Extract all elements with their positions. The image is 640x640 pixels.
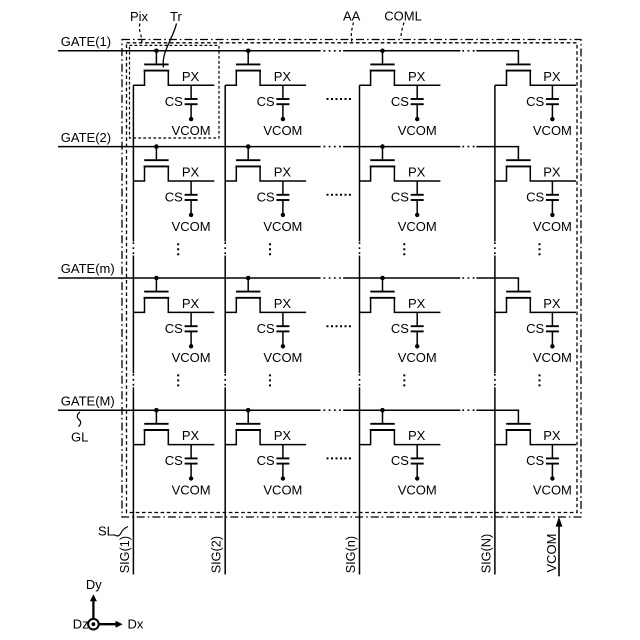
wire drain / PX node r2c2	[260, 166, 306, 181]
capacitor CS r1c4	[546, 85, 559, 119]
capacitor CS r2c3	[411, 181, 424, 215]
transistor Tr r2c3	[370, 147, 396, 167]
wire drain / PX node r4c3	[394, 430, 440, 445]
node VCOM terminal dot r1c3	[415, 117, 419, 121]
svg-text:VCOM: VCOM	[263, 482, 302, 497]
wire source: channel to signal line r1c1	[133, 71, 144, 86]
svg-text:VCOM: VCOM	[533, 350, 572, 365]
svg-text:VCOM: VCOM	[172, 482, 211, 497]
node junction dot on gate line r1c1	[154, 49, 159, 54]
leader from Tr to transistor (solid curve)	[163, 24, 176, 68]
node junction dot on gate line r3c3	[380, 276, 385, 281]
Pix pixel-cell dashed box	[130, 45, 220, 138]
svg-text:VCOM: VCOM	[263, 123, 302, 138]
wire source: channel to signal line r4c4	[495, 430, 507, 445]
svg-text:Pix: Pix	[130, 9, 149, 24]
node junction dot on gate line r4c2	[246, 408, 251, 413]
wire source: channel to signal line r2c1	[133, 166, 144, 181]
dots (omitted columns) row3	[327, 325, 352, 327]
svg-text:CS: CS	[391, 453, 409, 468]
node VCOM terminal dot r4c2	[281, 476, 285, 480]
wire drain / PX node r3c2	[260, 298, 306, 313]
wire drain / PX node r1c1	[168, 71, 214, 86]
node junction dot on gate line r2c2	[246, 144, 251, 149]
transistor Tr r2c4	[506, 147, 532, 167]
svg-text:CS: CS	[526, 321, 544, 336]
svg-text:CS: CS	[257, 94, 275, 109]
node VCOM terminal dot r3c4	[550, 344, 554, 348]
node VCOM terminal dot r4c4	[550, 476, 554, 480]
svg-text:VCOM: VCOM	[263, 219, 302, 234]
squiggle leader GATE(M) to GL	[77, 412, 80, 427]
node junction dot on gate line r2c1	[154, 144, 159, 149]
capacitor CS r1c2	[276, 85, 289, 119]
wire source: channel to signal line r4c3	[360, 430, 371, 445]
node VCOM terminal dot r2c1	[189, 213, 193, 217]
axis symbol Dz (circle with dot, out of page)	[88, 619, 99, 630]
wire drain / PX node r3c1	[168, 298, 214, 313]
transistor Tr r3c4	[506, 278, 532, 298]
AA active-area boundary (dashed rectangle)	[127, 43, 578, 513]
dots (omitted rows) below VCOM col3 gap2	[403, 374, 405, 388]
svg-text:SL: SL	[98, 524, 114, 539]
axis arrow Dx (right)	[93, 621, 122, 628]
node junction dot on gate line r1c2	[246, 49, 251, 54]
svg-text:PX: PX	[543, 296, 561, 311]
svg-text:PX: PX	[182, 428, 200, 443]
wire gate line GATE(m) (with dotted breaks for omitted columns)	[58, 277, 519, 279]
svg-text:COML: COML	[384, 9, 422, 24]
transistor Tr r2c1	[144, 147, 170, 167]
wire drain / PX node r3c3	[394, 298, 440, 313]
wire source: channel to signal line r2c2	[225, 166, 236, 181]
dots (omitted rows) below VCOM col1 gap1	[177, 243, 179, 257]
svg-text:CS: CS	[391, 190, 409, 205]
wire drain / PX node r3c4	[530, 298, 576, 313]
wire gate line GATE(2) (with dotted breaks for omitted columns)	[58, 146, 519, 148]
svg-text:CS: CS	[391, 94, 409, 109]
wire drain / PX node r4c2	[260, 430, 306, 445]
leader from AA to AA boundary (dashed curve)	[351, 23, 353, 42]
wire source: channel to signal line r4c2	[225, 430, 236, 445]
node VCOM terminal dot r4c3	[415, 476, 419, 480]
svg-text:PX: PX	[543, 69, 561, 84]
svg-text:Dy: Dy	[86, 577, 102, 592]
svg-text:CS: CS	[165, 94, 183, 109]
wire source: channel to signal line r1c3	[360, 71, 371, 86]
wire gate line GATE(1) (with dotted breaks for omitted columns)	[58, 50, 519, 52]
arrow VCOM to COML boundary	[556, 517, 563, 577]
node VCOM terminal dot r3c2	[281, 344, 285, 348]
transistor Tr r3c3	[370, 278, 396, 298]
svg-text:VCOM: VCOM	[544, 534, 559, 573]
wire source: channel to signal line r3c2	[225, 298, 236, 313]
svg-text:CS: CS	[257, 321, 275, 336]
transistor Tr r4c4	[506, 410, 532, 430]
COML boundary (dash-dot rectangle)	[122, 40, 581, 518]
svg-text:CS: CS	[165, 190, 183, 205]
wire drain / PX node r4c4	[530, 430, 576, 445]
svg-text:PX: PX	[543, 428, 561, 443]
svg-text:CS: CS	[257, 453, 275, 468]
wire signal line SIG(2) (vertical, with dotted breaks for omitted rows)	[224, 85, 226, 574]
dots (omitted columns) row4	[327, 457, 352, 459]
squiggle leader SL to boundary	[114, 527, 129, 536]
node junction dot on gate line r1c3	[380, 49, 385, 54]
leader from Pix to pixel box (dashed curve)	[139, 24, 141, 46]
svg-text:PX: PX	[274, 69, 292, 84]
svg-text:VCOM: VCOM	[533, 482, 572, 497]
wire signal line SIG(1) (vertical, with dotted breaks for omitted rows)	[132, 85, 134, 574]
wire source: channel to signal line r4c1	[133, 430, 144, 445]
dots (omitted rows) below VCOM col2 gap2	[269, 374, 271, 388]
svg-text:VCOM: VCOM	[172, 123, 211, 138]
transistor Tr r1c1	[144, 51, 170, 71]
transistor Tr r2c2	[235, 147, 261, 167]
dots (omitted rows) below VCOM col1 gap2	[177, 374, 179, 388]
dots (omitted rows) below VCOM col2 gap1	[269, 243, 271, 257]
svg-text:PX: PX	[408, 165, 426, 180]
svg-text:CS: CS	[526, 453, 544, 468]
svg-text:GATE(2): GATE(2)	[61, 130, 111, 145]
capacitor CS r2c2	[276, 181, 289, 215]
transistor Tr r1c2	[235, 51, 261, 71]
svg-text:PX: PX	[182, 165, 200, 180]
capacitor CS r4c2	[276, 445, 289, 479]
wire drain / PX node r2c4	[530, 166, 576, 181]
wire drain / PX node r1c4	[530, 71, 576, 86]
wire signal line SIG(N) (vertical, with dotted breaks for omitted rows)	[494, 85, 496, 574]
transistor Tr r1c3	[370, 51, 396, 71]
wire source: channel to signal line r3c3	[360, 298, 371, 313]
wire signal line SIG(n) (vertical, with dotted breaks for omitted rows)	[359, 85, 361, 574]
wire drain / PX node r1c2	[260, 71, 306, 86]
node junction dot on gate line r4c1	[154, 408, 159, 413]
svg-text:SIG(2): SIG(2)	[210, 536, 224, 573]
wire drain / PX node r4c1	[168, 430, 214, 445]
transistor Tr r3c1	[144, 278, 170, 298]
svg-text:PX: PX	[274, 296, 292, 311]
dots (omitted columns) row1	[327, 98, 352, 100]
svg-text:CS: CS	[526, 94, 544, 109]
transistor Tr r4c1	[144, 410, 170, 430]
svg-text:Tr: Tr	[170, 9, 182, 24]
transistor Tr r4c2	[235, 410, 261, 430]
capacitor CS r4c1	[185, 445, 198, 479]
wire source: channel to signal line r1c2	[225, 71, 236, 86]
svg-text:VCOM: VCOM	[172, 350, 211, 365]
node junction dot on gate line r2c3	[380, 144, 385, 149]
svg-text:SIG(1): SIG(1)	[118, 536, 132, 573]
svg-text:PX: PX	[182, 296, 200, 311]
svg-text:VCOM: VCOM	[398, 123, 437, 138]
capacitor CS r3c3	[411, 312, 424, 346]
svg-text:VCOM: VCOM	[398, 350, 437, 365]
svg-text:PX: PX	[408, 296, 426, 311]
svg-text:GATE(M): GATE(M)	[61, 393, 115, 408]
wire source: channel to signal line r2c4	[495, 166, 507, 181]
capacitor CS r3c2	[276, 312, 289, 346]
svg-text:CS: CS	[257, 190, 275, 205]
svg-text:CS: CS	[391, 321, 409, 336]
capacitor CS r3c4	[546, 312, 559, 346]
svg-text:PX: PX	[408, 428, 426, 443]
transistor Tr r3c2	[235, 278, 261, 298]
capacitor CS r2c4	[546, 181, 559, 215]
dots (omitted rows) below VCOM col3 gap1	[403, 243, 405, 257]
svg-text:Dx: Dx	[128, 617, 144, 632]
wire source: channel to signal line r2c3	[360, 166, 371, 181]
node VCOM terminal dot r3c3	[415, 344, 419, 348]
node junction dot on gate line r4c3	[380, 408, 385, 413]
capacitor CS r1c3	[411, 85, 424, 119]
svg-text:CS: CS	[526, 190, 544, 205]
svg-text:CS: CS	[165, 321, 183, 336]
svg-text:GL: GL	[71, 430, 88, 445]
node VCOM terminal dot r3c1	[189, 344, 193, 348]
svg-text:SIG(n): SIG(n)	[344, 536, 358, 573]
svg-text:VCOM: VCOM	[533, 219, 572, 234]
transistor Tr r4c3	[370, 410, 396, 430]
svg-text:VCOM: VCOM	[172, 219, 211, 234]
svg-text:PX: PX	[274, 428, 292, 443]
node junction dot on gate line r3c2	[246, 276, 251, 281]
svg-text:VCOM: VCOM	[533, 123, 572, 138]
svg-text:VCOM: VCOM	[263, 350, 302, 365]
svg-text:PX: PX	[408, 69, 426, 84]
node VCOM terminal dot r2c2	[281, 213, 285, 217]
transistor Tr r1c4	[506, 51, 532, 71]
svg-text:AA: AA	[343, 9, 361, 24]
wire drain / PX node r1c3	[394, 71, 440, 86]
node VCOM terminal dot r1c2	[281, 117, 285, 121]
svg-text:GATE(1): GATE(1)	[61, 34, 111, 49]
node VCOM terminal dot r1c1	[189, 117, 193, 121]
capacitor CS r4c3	[411, 445, 424, 479]
node VCOM terminal dot r2c4	[550, 213, 554, 217]
node VCOM terminal dot r4c1	[189, 476, 193, 480]
wire drain / PX node r2c1	[168, 166, 214, 181]
dots (omitted rows) below VCOM col4 gap1	[539, 243, 541, 257]
svg-text:CS: CS	[165, 453, 183, 468]
node VCOM terminal dot r2c3	[415, 213, 419, 217]
svg-text:PX: PX	[274, 165, 292, 180]
wire source: channel to signal line r1c4	[495, 71, 507, 86]
capacitor CS r3c1	[185, 312, 198, 346]
axis arrow Dy (up)	[90, 594, 97, 624]
node VCOM terminal dot r1c4	[550, 117, 554, 121]
wire drain / PX node r2c3	[394, 166, 440, 181]
wire source: channel to signal line r3c4	[495, 298, 507, 313]
svg-text:VCOM: VCOM	[398, 482, 437, 497]
svg-text:SIG(N): SIG(N)	[479, 534, 493, 573]
svg-text:PX: PX	[182, 69, 200, 84]
capacitor CS r4c4	[546, 445, 559, 479]
capacitor CS r2c1	[185, 181, 198, 215]
node junction dot on gate line r3c1	[154, 276, 159, 281]
wire gate line GATE(M) (with dotted breaks for omitted columns)	[58, 409, 519, 411]
capacitor CS r1c1	[185, 85, 198, 119]
svg-text:GATE(m): GATE(m)	[61, 261, 115, 276]
dots (omitted columns) row2	[327, 194, 352, 196]
svg-text:Dz: Dz	[73, 617, 89, 632]
svg-text:VCOM: VCOM	[398, 219, 437, 234]
wire source: channel to signal line r3c1	[133, 298, 144, 313]
dots (omitted rows) below VCOM col4 gap2	[539, 374, 541, 388]
leader from COML to COML boundary (dashed curve)	[401, 23, 404, 39]
svg-text:PX: PX	[543, 165, 561, 180]
